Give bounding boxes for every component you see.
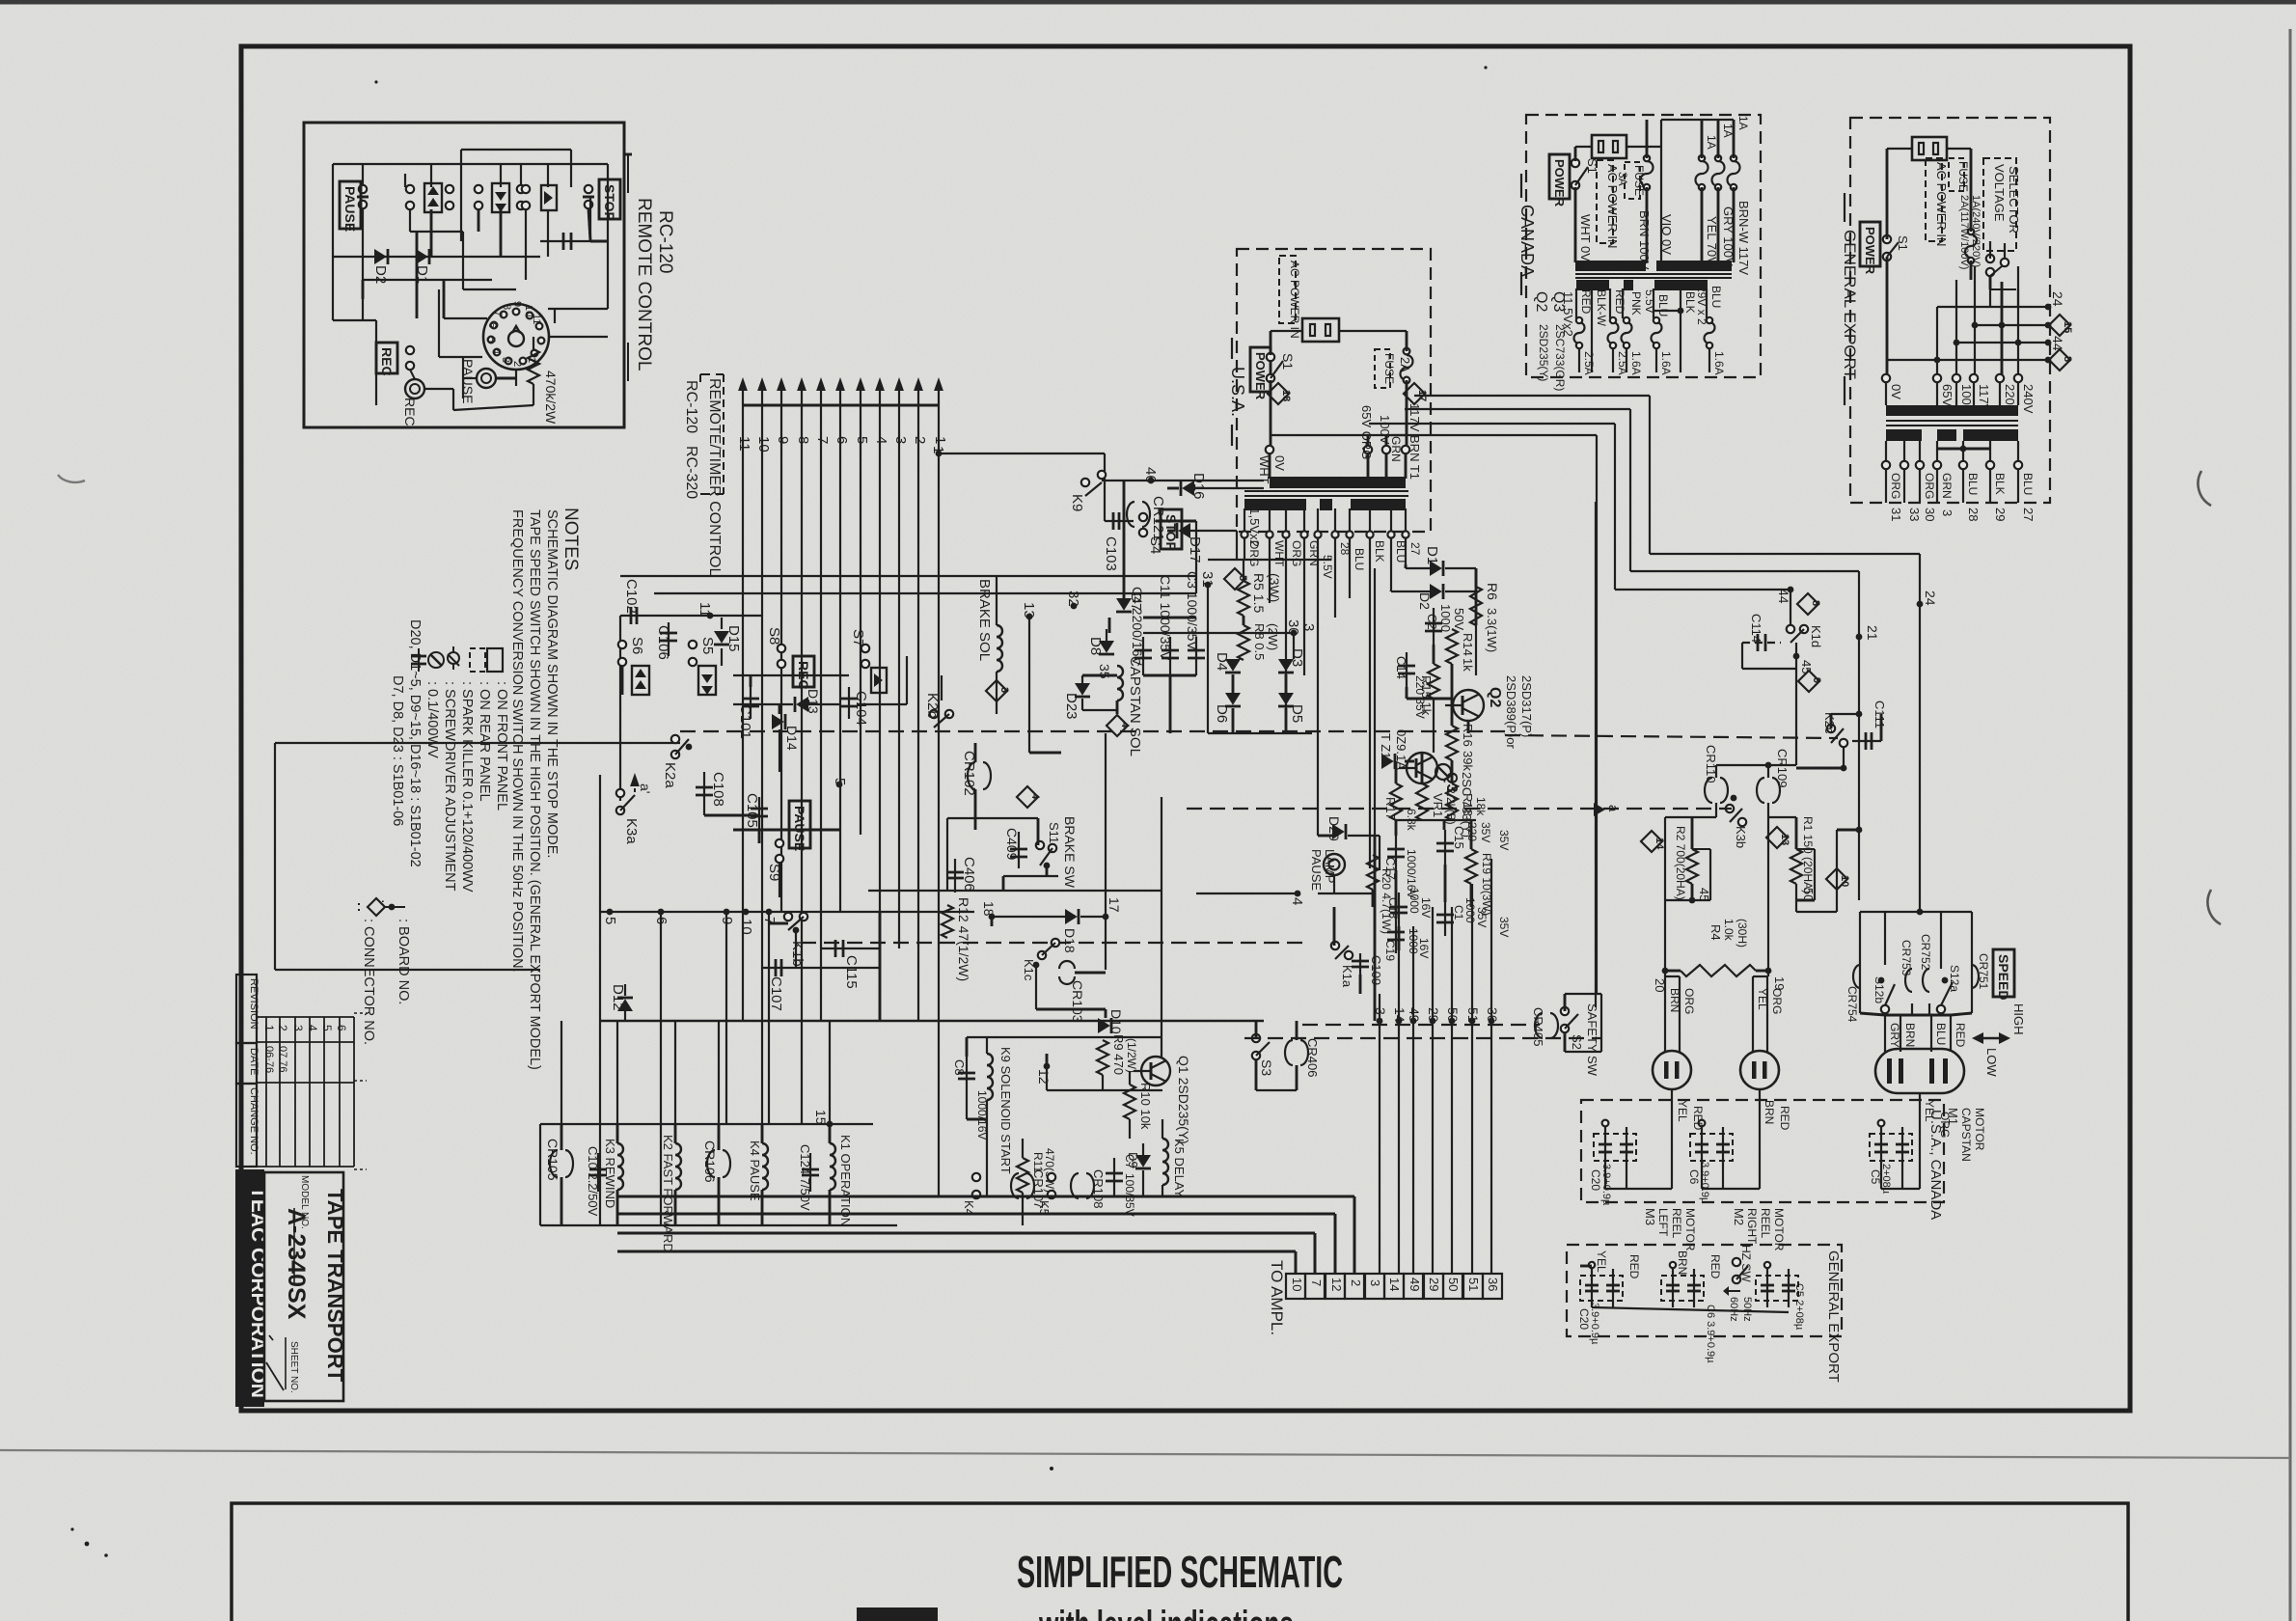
GENERAL EXPORT dashed box — [1850, 118, 2050, 503]
svg-text:S6: S6 — [629, 637, 645, 654]
svg-text:R14: R14 — [1461, 633, 1475, 656]
svg-text:1A: 1A — [1736, 116, 1750, 130]
svg-text:RED: RED — [1613, 289, 1626, 315]
svg-text:5: 5 — [854, 436, 870, 444]
jack PAUSE — [460, 357, 516, 403]
label 18 net — [981, 901, 997, 920]
svg-text:BLU: BLU — [1656, 294, 1670, 316]
svg-text:5: 5 — [1237, 575, 1248, 581]
svg-text:D2: D2 — [372, 265, 389, 284]
pot VR1 — [1416, 764, 1458, 825]
label STOP boxed — [1161, 509, 1182, 551]
svg-text:16V: 16V — [1417, 938, 1431, 958]
svg-text:RED: RED — [1579, 289, 1593, 315]
svg-text:M2: M2 — [1732, 1208, 1746, 1225]
button fast-forward — [475, 183, 525, 212]
svg-text:1: 1 — [932, 436, 948, 444]
switch S6 — [618, 637, 645, 695]
teac corporation bar — [235, 1169, 269, 1407]
svg-text:D5: D5 — [1289, 704, 1305, 723]
capacitor C19 — [1383, 919, 1431, 961]
wire left vertical b — [619, 616, 621, 801]
switch S1 canada — [1572, 158, 1599, 189]
scan mark right lower — [2207, 890, 2221, 924]
svg-text:CR752: CR752 — [1919, 934, 1932, 971]
label FUSE ge — [1949, 158, 1982, 269]
diode D2 main — [1391, 584, 1476, 610]
label POWER canada — [1549, 154, 1570, 207]
label FUSE usa — [1375, 349, 1412, 388]
svg-text:15: 15 — [2062, 321, 2073, 333]
svg-text:CR106: CR106 — [702, 1140, 718, 1183]
svg-text:POWER: POWER — [1253, 352, 1268, 400]
switch K1a — [1331, 942, 1354, 988]
svg-text:49: 49 — [1408, 1278, 1422, 1291]
relay K1 operation — [813, 1110, 853, 1226]
legend diode note — [407, 619, 423, 867]
label FUSE canada — [1616, 162, 1646, 199]
svg-text:3: 3 — [500, 357, 511, 363]
svg-text:07.76: 07.76 — [277, 1046, 288, 1073]
svg-text:1: 1 — [262, 1025, 276, 1031]
svg-text:D7, D8, D23 : S1B01-06: D7, D8, D23 : S1B01-06 — [390, 675, 405, 826]
svg-text:1.6A: 1.6A — [1659, 351, 1673, 375]
capacitor C124 — [798, 1144, 819, 1211]
svg-text:REC: REC — [379, 347, 395, 376]
wire k9 line — [1102, 481, 1264, 606]
resistor R11 — [1017, 1139, 1056, 1225]
switch S7 — [850, 629, 869, 668]
capacitor C10 — [586, 1146, 607, 1217]
label 13 — [1021, 602, 1037, 619]
svg-text:AC POWER IN: AC POWER IN — [1288, 261, 1301, 339]
svg-text:5: 5 — [602, 917, 618, 924]
lower border frame — [232, 1503, 2128, 1621]
svg-text:TAPE SPEED SWITCH SHOWN IN THE: TAPE SPEED SWITCH SHOWN IN THE HIGH POSI… — [527, 509, 542, 1070]
capacitor C8 — [952, 1057, 989, 1140]
diamond 13 — [1766, 827, 1790, 848]
diode D14 — [772, 714, 800, 751]
label REMOTE CONTROL RC-120 — [624, 154, 675, 381]
label USA — [1228, 338, 1247, 446]
transformer ge secondary bars — [1886, 429, 2018, 441]
svg-text:2SD389(P)or: 2SD389(P)or — [1504, 675, 1518, 750]
svg-text:10: 10 — [738, 919, 754, 935]
svg-text:11: 11 — [736, 436, 752, 452]
label 100V GRN — [1378, 415, 1403, 462]
svg-text:1.0k: 1.0k — [1722, 919, 1736, 942]
svg-text:a': a' — [638, 783, 653, 793]
svg-text:BLU: BLU — [1934, 1023, 1948, 1045]
svg-text:GENERAL EXPORT: GENERAL EXPORT — [1841, 230, 1859, 379]
svg-text:C5 2+08µ: C5 2+08µ — [1793, 1283, 1805, 1331]
svg-text:TEAC CORPORATION: TEAC CORPORATION — [247, 1187, 269, 1398]
wire r4 row — [1653, 817, 1787, 992]
svg-text:240V: 240V — [2021, 384, 2036, 414]
svg-text:K1b: K1b — [789, 941, 806, 967]
legend connector no — [359, 899, 395, 1045]
diode D7 — [1116, 592, 1144, 612]
ge connector numbers — [1889, 508, 2036, 521]
ge2 hz switch — [1723, 1245, 1753, 1322]
resistor R19 — [1465, 849, 1493, 916]
svg-text:D2: D2 — [1417, 592, 1433, 610]
diode D15 — [714, 618, 742, 666]
svg-text:15: 15 — [813, 1110, 829, 1125]
diamond 18 — [1268, 383, 1292, 404]
svg-text:27: 27 — [2021, 508, 2036, 521]
svg-text:REEL: REEL — [1670, 1208, 1683, 1239]
remote rotary wires — [417, 232, 608, 386]
bus to connector 4 — [617, 1251, 1296, 1274]
svg-text:VR1: VR1 — [1431, 793, 1445, 817]
svg-text:06·76: 06·76 — [263, 1046, 275, 1073]
speed arrows — [1972, 1003, 2026, 1077]
ge secondary taps — [1882, 441, 2022, 503]
capacitor C114 — [1742, 614, 1796, 669]
bus to connector 3 — [617, 1233, 1315, 1274]
svg-text:K9: K9 — [1069, 494, 1085, 511]
switch K1b — [769, 913, 807, 967]
wire stop loop — [930, 446, 1196, 593]
svg-text:BRN: BRN — [1668, 988, 1681, 1012]
svg-text:BRAKE SW: BRAKE SW — [1062, 816, 1078, 889]
label SPEED — [1993, 949, 2014, 1000]
label 35V marks — [1497, 830, 1511, 937]
svg-text:12: 12 — [1329, 1278, 1344, 1291]
label REC — [376, 343, 414, 376]
svg-text:CR105: CR105 — [545, 1139, 560, 1181]
svg-text:YEL: YEL — [1595, 1250, 1608, 1273]
svg-text:60Hz: 60Hz — [1728, 1297, 1739, 1322]
svg-text:2: 2 — [1349, 1279, 1363, 1286]
svg-text:6: 6 — [335, 1025, 348, 1031]
wire usa plug — [1271, 331, 1407, 450]
wire right v1654 — [1595, 502, 1597, 1007]
svg-text:2SC733(GR): 2SC733(GR) — [1553, 324, 1567, 391]
ge top wires — [1887, 149, 1971, 378]
label GENERAL EXPORT — [1841, 193, 1859, 405]
svg-text:3: 3 — [998, 687, 1010, 693]
motor M1 oval — [1875, 1049, 1964, 1093]
svg-text:(30H): (30H) — [1736, 919, 1749, 948]
svg-text:4: 4 — [873, 436, 889, 444]
scan mark right upper — [2198, 471, 2211, 506]
diamond 17 — [1404, 383, 1428, 404]
diode D17 — [1177, 523, 1203, 563]
diode D1 main — [1406, 546, 1476, 576]
svg-text:3: 3 — [1373, 1007, 1388, 1015]
capacitor C108 — [696, 772, 726, 815]
cap C5 dashed — [1869, 1120, 1912, 1195]
canada secondary labels — [1561, 286, 1723, 337]
canada tap labels — [1578, 201, 1751, 275]
svg-text:FUSE: FUSE — [1956, 161, 1970, 192]
svg-text:M1: M1 — [1946, 1108, 1960, 1125]
relay K5 delay — [1162, 1119, 1187, 1198]
plug usa — [1302, 318, 1339, 342]
svg-text:YEL 70V: YEL 70V — [1705, 216, 1719, 265]
transformer T1 primary bar — [1270, 477, 1406, 488]
svg-text:6: 6 — [834, 436, 850, 444]
dashed mode line — [680, 731, 1838, 738]
svg-text:5.5V: 5.5V — [1643, 289, 1656, 314]
resistor 470k — [453, 337, 559, 425]
svg-text:C2: C2 — [1425, 614, 1439, 630]
svg-text:S11: S11 — [1047, 822, 1061, 843]
cap C20 dashed — [1589, 1120, 1636, 1206]
label AC POWER IN ge — [1926, 158, 1949, 246]
svg-text:Q3: Q3 — [1550, 291, 1567, 312]
svg-text:BLU: BLU — [1966, 473, 1980, 495]
remote connector rotary — [483, 301, 549, 370]
transformer T1 core — [1244, 491, 1408, 496]
svg-text:2: 2 — [511, 361, 523, 367]
svg-text:C107: C107 — [768, 976, 784, 1011]
switch S1 ge — [1883, 235, 1910, 261]
coil brake solenoid — [976, 576, 1002, 714]
resistor R6 — [1470, 568, 1500, 675]
svg-text:C108: C108 — [710, 772, 726, 807]
button ff-left — [632, 666, 649, 695]
svg-text:ORG: ORG — [1770, 988, 1784, 1014]
relay CR103 — [1036, 961, 1106, 1023]
canada secondary taps — [1574, 288, 1715, 372]
svg-text:PNK: PNK — [1629, 291, 1643, 316]
svg-text:3: 3 — [291, 1025, 305, 1031]
legend diode note 2 — [390, 675, 405, 826]
svg-text:31: 31 — [1889, 508, 1903, 521]
capacitor C1 — [1436, 897, 1489, 936]
resistor R14 — [1446, 629, 1475, 672]
svg-text:C409: C409 — [1004, 828, 1020, 861]
capacitor C104 — [840, 687, 869, 726]
svg-text:C6 3.9+0.9µ: C6 3.9+0.9µ — [1705, 1305, 1716, 1363]
svg-text:ORG: ORG — [1290, 540, 1303, 566]
scan mark left — [58, 475, 85, 482]
label 0V WHT — [1257, 455, 1287, 484]
button play center — [871, 668, 887, 693]
svg-text:9: 9 — [775, 436, 791, 444]
svg-text:(1/2W): (1/2W) — [1125, 1038, 1138, 1073]
revision header texts — [248, 978, 260, 1155]
svg-text:SHEET NO.: SHEET NO. — [288, 1341, 299, 1393]
svg-text:K9 SOLENOID START: K9 SOLENOID START — [998, 1047, 1013, 1174]
svg-text:7: 7 — [492, 311, 504, 316]
svg-text:D15: D15 — [725, 625, 742, 652]
svg-text:4: 4 — [1029, 793, 1041, 800]
fuse ge — [1965, 229, 1977, 263]
label 65V ORG — [1359, 405, 1374, 459]
svg-text:S5: S5 — [699, 637, 716, 654]
capacitor C4 — [1130, 587, 1152, 675]
svg-text:2SD235(Y): 2SD235(Y) — [1537, 324, 1550, 381]
diamond brake sw — [1017, 786, 1041, 808]
svg-text:REMOTE CONTROL: REMOTE CONTROL — [634, 198, 654, 371]
svg-text:BLK-W: BLK-W — [1595, 289, 1608, 327]
svg-text:3.3(1W): 3.3(1W) — [1485, 608, 1499, 652]
svg-text:30: 30 — [1923, 508, 1937, 521]
svg-text:10: 10 — [1839, 875, 1850, 887]
label 11 — [697, 602, 713, 618]
svg-text:Q2: Q2 — [1487, 687, 1503, 707]
svg-text:CAPSTAN SOL: CAPSTAN SOL — [1127, 656, 1143, 756]
svg-text:D4: D4 — [1214, 652, 1230, 671]
resistor R12 — [942, 897, 971, 981]
legend dashed box icon — [470, 648, 492, 802]
svg-text:K2c: K2c — [1822, 712, 1837, 734]
svg-text:MOTOR: MOTOR — [1973, 1108, 1986, 1151]
wire k1b mesh — [796, 912, 880, 1021]
svg-text:RC-120: RC-120 — [655, 210, 675, 273]
wire mid verticals — [1375, 836, 1491, 1274]
capacitor C111 — [1852, 701, 1887, 750]
svg-text:WHT: WHT — [1272, 540, 1286, 567]
svg-text:REMOTE/TIMER CONTROL: REMOTE/TIMER CONTROL — [706, 378, 723, 576]
svg-text:HZ SW: HZ SW — [1739, 1245, 1753, 1282]
svg-text:BRN-W 117V: BRN-W 117V — [1736, 201, 1751, 275]
label 5b — [832, 778, 848, 787]
ge2 cap C5 — [1756, 1262, 1805, 1331]
svg-text:GRN: GRN — [1940, 473, 1954, 499]
svg-text:2A: 2A — [1398, 357, 1412, 372]
diode D16 — [1181, 473, 1207, 500]
svg-text:CAPSTAN: CAPSTAN — [1959, 1108, 1973, 1162]
jack REC — [402, 370, 453, 426]
svg-text:S3: S3 — [1259, 1059, 1274, 1076]
svg-text:a: a — [1606, 805, 1621, 812]
svg-text:BLK: BLK — [1683, 291, 1697, 314]
relay CR105 — [545, 1124, 573, 1225]
remote wire mesh — [333, 164, 608, 405]
ge2 labels — [1595, 1250, 1722, 1279]
transformer T1 secondary bars — [1244, 499, 1406, 510]
resistor R17 — [1383, 783, 1418, 832]
label 11.5Vx2 — [1247, 502, 1262, 547]
svg-text:C15: C15 — [1452, 826, 1466, 849]
resistor R9 — [1036, 1034, 1138, 1090]
svg-text:3: 3 — [1940, 509, 1954, 516]
relay CR110 — [1704, 745, 1728, 817]
svg-text:2: 2 — [912, 436, 928, 444]
svg-text:3: 3 — [1368, 1279, 1382, 1286]
svg-text:YEL: YEL — [1676, 1100, 1689, 1122]
svg-text:ORG: ORG — [1923, 473, 1936, 499]
capacitor C101 — [737, 687, 759, 739]
svg-text:S1: S1 — [1280, 353, 1296, 370]
svg-text:C20: C20 — [1577, 1308, 1591, 1330]
dashed q3 line — [1187, 803, 1732, 816]
relay CR102 — [961, 743, 991, 830]
svg-text:BRAKE SOL: BRAKE SOL — [976, 579, 993, 661]
svg-text:D1: D1 — [1424, 546, 1440, 564]
svg-text:C3 1000/35V: C3 1000/35V — [1185, 571, 1200, 650]
switch stop contacts — [583, 185, 594, 208]
svg-text:R6: R6 — [1485, 583, 1500, 600]
label 31 — [1199, 571, 1216, 588]
svg-text:RED: RED — [1778, 1106, 1791, 1131]
diode D2 — [372, 249, 389, 284]
wire center v1122 — [1029, 617, 1061, 753]
svg-text:SELECTOR: SELECTOR — [2007, 166, 2021, 234]
svg-text:1k: 1k — [1461, 658, 1475, 672]
svg-text:BLK: BLK — [1993, 473, 2007, 495]
connector TO AMPL boxes — [1286, 1274, 1502, 1299]
svg-text:50: 50 — [1446, 1278, 1461, 1291]
switch S3 — [1252, 1021, 1274, 1090]
svg-text:T Z1: T Z1 — [1379, 733, 1393, 759]
svg-text:18: 18 — [981, 901, 997, 917]
svg-text:D17: D17 — [1187, 536, 1203, 563]
zener TZ1 — [1379, 729, 1408, 770]
svg-text:10: 10 — [755, 436, 772, 453]
svg-text:S1: S1 — [1896, 235, 1910, 251]
svg-text:PAUSE: PAUSE — [342, 186, 358, 232]
svg-text:3.9+0.9µ: 3.9+0.9µ — [1699, 1162, 1710, 1204]
svg-text:35V: 35V — [1479, 822, 1492, 842]
transistor Q1 — [1134, 1056, 1191, 1144]
button fast-rewind — [406, 183, 453, 212]
pause button label — [340, 181, 361, 232]
wire v797 — [768, 912, 770, 1124]
switch K2b — [924, 675, 953, 728]
svg-text:R2 700(20HA): R2 700(20HA) — [1674, 826, 1687, 900]
svg-text:K5 DELAY: K5 DELAY — [1172, 1139, 1187, 1198]
resistor R15 — [1419, 664, 1439, 716]
title sheet no — [266, 1335, 299, 1393]
main border frame — [241, 46, 2130, 1411]
switch K1d — [1787, 625, 1823, 692]
svg-text:9: 9 — [1811, 677, 1822, 683]
bundle top bracket — [743, 404, 939, 407]
svg-text:C1: C1 — [1452, 905, 1465, 920]
svg-text:50V: 50V — [1452, 608, 1466, 630]
diode D3 — [1278, 648, 1305, 673]
svg-text:POWER: POWER — [1863, 227, 1877, 275]
wire h615 — [654, 592, 1196, 594]
svg-text:C106: C106 — [655, 625, 671, 660]
svg-text:1000/16V: 1000/16V — [975, 1090, 989, 1140]
svg-text:D3: D3 — [1289, 648, 1305, 667]
wire usa taps — [1266, 435, 1409, 479]
svg-text:D14: D14 — [784, 726, 800, 751]
svg-text:WHT: WHT — [1257, 455, 1271, 484]
bus to connector 1 — [617, 1196, 1354, 1274]
svg-text:CANADA: CANADA — [1517, 205, 1537, 277]
svg-text:R12 47(1/2W): R12 47(1/2W) — [956, 897, 971, 981]
svg-text:39k: 39k — [1461, 751, 1475, 771]
label net 24 — [1917, 591, 1938, 607]
T1 secondary taps — [1241, 508, 1408, 538]
svg-text:K1c: K1c — [1022, 959, 1036, 981]
legend screwdriver icon — [428, 652, 457, 892]
svg-text:R8 0.5: R8 0.5 — [1252, 623, 1267, 660]
label REMOTE/TIMER CONTROL — [683, 374, 724, 576]
wire stair 4 — [1391, 435, 1597, 994]
svg-text:D20: D20 — [1326, 816, 1342, 841]
diode D6 — [1214, 693, 1241, 723]
ge2 cap C20 — [1577, 1262, 1623, 1345]
svg-text:GRY 100V: GRY 100V — [1721, 206, 1736, 266]
svg-text:Q1 2SD235(Y): Q1 2SD235(Y) — [1176, 1056, 1191, 1144]
svg-text:C7: C7 — [1123, 1154, 1136, 1169]
svg-text:1.6A: 1.6A — [1629, 351, 1643, 375]
wire stair 1 — [1414, 396, 1920, 912]
svg-text:BRN: BRN — [1763, 1100, 1776, 1124]
canada wires top — [1575, 120, 1734, 262]
wire cluster rec — [733, 656, 907, 772]
title SIMPLIFIED SCHEMATIC — [1017, 1547, 1343, 1597]
